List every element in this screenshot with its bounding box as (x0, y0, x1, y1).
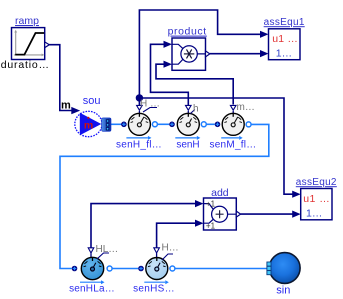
svg-text:H…: H… (162, 243, 179, 254)
svg-text:1…: 1… (306, 207, 322, 219)
svg-text:sou: sou (83, 95, 101, 107)
svg-text:add: add (211, 187, 229, 199)
svg-text:sin: sin (276, 285, 290, 297)
svg-text:ramp: ramp (15, 15, 39, 27)
svg-text:duratio…: duratio… (1, 59, 50, 71)
svg-text:m…: m… (237, 102, 255, 113)
svg-text:senH: senH (176, 140, 199, 151)
svg-text:senHS…: senHS… (133, 284, 175, 295)
svg-text:+1: +1 (206, 221, 216, 230)
svg-text:senM_fl…: senM_fl… (209, 140, 256, 151)
svg-text:h: h (193, 104, 199, 115)
svg-text:1…: 1… (276, 47, 292, 59)
svg-text:product: product (168, 26, 207, 38)
svg-text:assEqu2: assEqu2 (296, 177, 337, 188)
svg-text:m: m (61, 99, 71, 111)
svg-text:+1: +1 (206, 200, 216, 209)
svg-text:HL…: HL… (96, 244, 119, 255)
svg-text:m: m (84, 120, 93, 132)
svg-text:u1 …: u1 … (272, 33, 298, 45)
svg-text:assEqu1: assEqu1 (264, 17, 305, 28)
svg-text:senHLa…: senHLa… (69, 284, 115, 295)
svg-text:u1 …: u1 … (303, 193, 330, 205)
svg-text:H …: H … (140, 98, 160, 109)
svg-text:senH_fl…: senH_fl… (116, 140, 162, 151)
